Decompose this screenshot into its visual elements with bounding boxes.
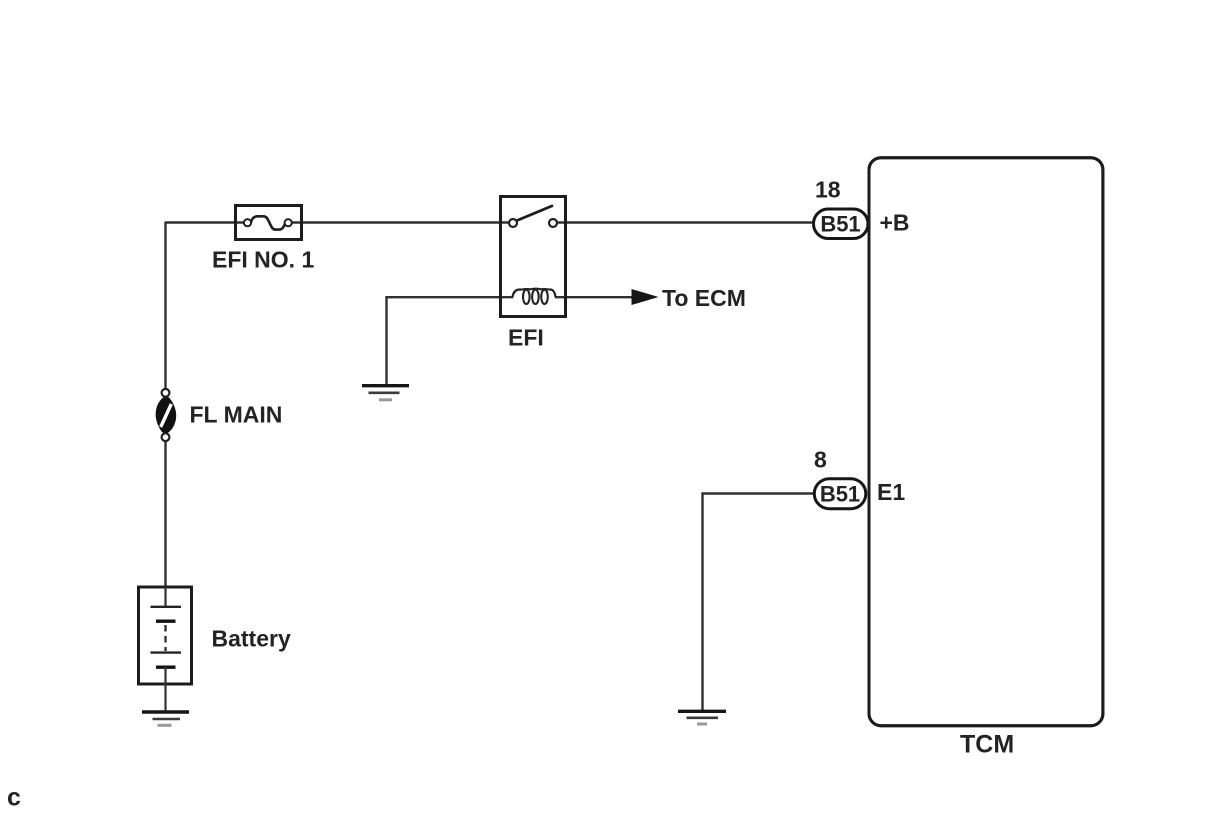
- svg-text:+B: +B: [880, 210, 910, 236]
- svg-text:B51: B51: [820, 212, 860, 237]
- svg-text:EFI NO. 1: EFI NO. 1: [212, 247, 314, 273]
- svg-text:E1: E1: [877, 479, 905, 505]
- svg-text:B51: B51: [820, 482, 860, 507]
- svg-text:Battery: Battery: [212, 626, 291, 652]
- svg-text:EFI: EFI: [508, 325, 544, 351]
- svg-text:c: c: [7, 784, 21, 812]
- svg-text:TCM: TCM: [960, 731, 1014, 759]
- svg-text:18: 18: [815, 177, 841, 203]
- svg-text:FL MAIN: FL MAIN: [190, 402, 283, 428]
- svg-text:To ECM: To ECM: [662, 285, 746, 311]
- svg-text:8: 8: [814, 447, 827, 473]
